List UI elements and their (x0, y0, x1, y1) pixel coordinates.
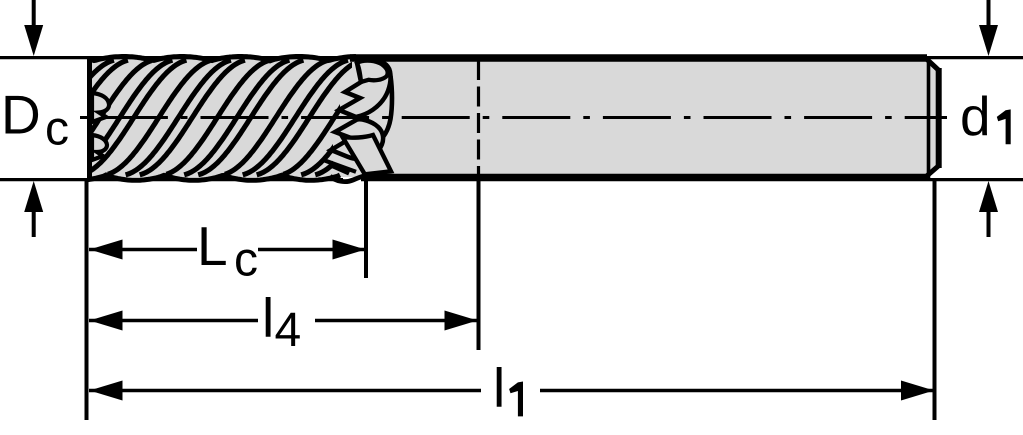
svg-text:c: c (234, 234, 258, 287)
svg-text:l: l (493, 357, 505, 419)
svg-text:L: L (197, 215, 228, 277)
svg-text:c: c (45, 103, 69, 156)
svg-text:l: l (262, 287, 274, 349)
svg-text:d: d (960, 85, 991, 147)
svg-text:D: D (1, 84, 41, 146)
svg-text:4: 4 (275, 304, 302, 357)
